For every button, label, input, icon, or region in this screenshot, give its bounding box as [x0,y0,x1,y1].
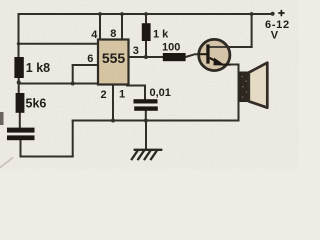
wire 1k8 to 5k6 [18,77,20,94]
capacitor C2 0,01 [134,87,171,111]
wire pin5 horizontal [127,85,145,87]
transistor Q1 [199,39,252,70]
wire node 2-6 horizontal [19,83,99,85]
wire V+ top rail [19,13,274,15]
wire 5k6 to C1 [19,112,21,128]
wire pin7 horizontal [19,43,99,45]
capacitor C1 [7,128,35,141]
wire ground rail [73,120,239,122]
wire emitter vertical [238,65,240,121]
wire pin1 vertical [112,85,114,121]
paper noise overlay [0,0,1,1]
speaker LS1 [240,63,267,108]
wire 1k bottom lead [145,41,147,58]
wire bottom left horizontal [21,156,73,158]
resistor R1 1k8 [14,57,50,78]
resistor R2 5k6 [16,93,47,113]
wire ground stub [145,121,147,150]
scan artifact left edge [0,112,4,125]
wire C2 bottom lead [145,111,147,121]
resistor R3 1k [142,23,169,41]
junction node dots [17,12,254,122]
IC U1 555 [98,40,129,85]
wire 100 to base [186,54,201,57]
wire pin5 down to C2 [144,86,146,100]
wire collector outer horizontal [230,46,252,48]
wire 1k top lead [145,14,147,24]
supply terminal + [271,10,285,16]
wire collector vertical [251,14,253,47]
wire left riser to ground rail [72,121,74,157]
wire left spine top [18,14,20,57]
supply label 6-12 V [265,19,290,42]
wire emitter horizontal [226,64,239,66]
wire pin6 link vertical [72,65,74,84]
wire pin3 output [129,56,164,58]
wire pin4 vertical [99,14,101,40]
paper background [0,0,299,169]
wire pin8 vertical [121,14,123,40]
wire C1 bottom lead [20,140,22,157]
wire pin6 horizontal [73,64,99,66]
resistor R4 100 [162,42,186,62]
ground [132,150,161,159]
scan artifact bottom left [0,158,13,168]
